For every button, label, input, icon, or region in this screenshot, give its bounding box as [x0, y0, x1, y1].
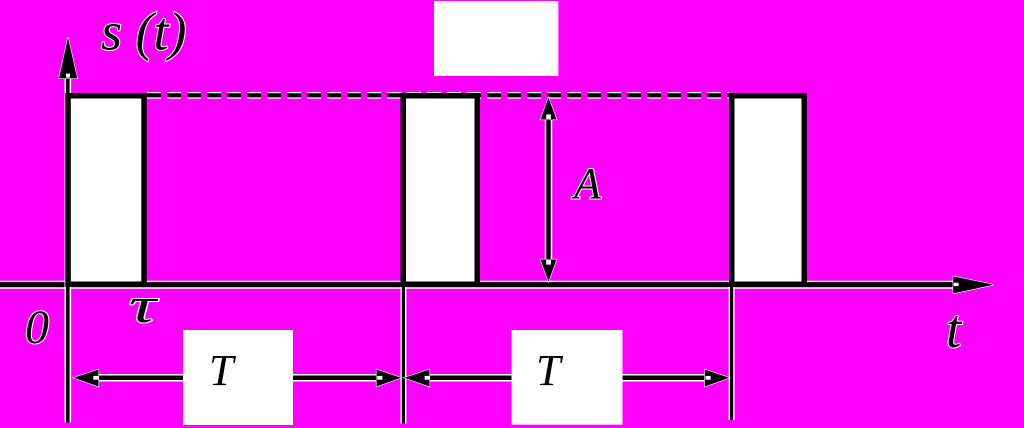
svg-text:τ: τ: [129, 277, 159, 333]
svg-text:T: T: [209, 346, 237, 395]
marker line below axis at pulse 2 left edge: [400, 287, 406, 424]
svg-text:0: 0: [25, 301, 49, 354]
period arrow T1 (double-headed, pulse1 to pulse2): [74, 370, 402, 387]
dashed amplitude reference line: [147, 92, 729, 99]
pulse 2: [403, 96, 477, 285]
top white box (empty): [434, 1, 558, 76]
pulse 3: [732, 96, 805, 285]
svg-text:T: T: [536, 346, 564, 395]
white box behind T2 label: [512, 330, 623, 425]
svg-text:A: A: [571, 159, 602, 208]
period arrow T2 (double-headed, pulse2 to pulse3): [405, 370, 730, 387]
svg-text:s (t): s (t): [101, 2, 186, 62]
pulse 1: [68, 96, 144, 285]
svg-text:t: t: [946, 298, 963, 359]
amplitude arrow A (vertical double-headed): [541, 98, 557, 282]
marker line below axis at pulse 3 left edge: [729, 287, 735, 420]
white box behind T1 label: [183, 330, 293, 425]
s-axis (vertical): [59, 37, 77, 422]
t-axis (horizontal): [0, 276, 994, 293]
